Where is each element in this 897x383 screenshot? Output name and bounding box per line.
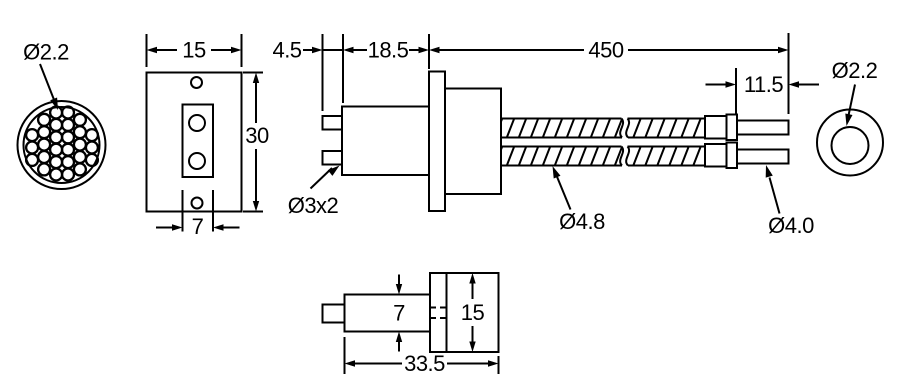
dimension 450 arrows and line [429,47,440,53]
leader arrow for O4.8 [557,176,571,210]
leader arrow for left O2.2 [40,64,55,101]
svg-text:30: 30 [245,123,269,148]
svg-text:Ø2.2: Ø2.2 [832,58,878,83]
extension line at wire end [788,33,790,114]
dimension 11.5 arrows [706,84,726,86]
svg-text:11.5: 11.5 [744,72,783,97]
terminal tab upper (side view) [323,116,343,130]
dimension 33.5 extension lines [344,337,346,374]
right view outer circle (wire insulation) [817,110,883,176]
dimension 15 arrows (rear housing height) [469,273,475,284]
svg-text:4.5: 4.5 [272,38,301,63]
upper cable ferrule [727,115,738,141]
plate center slot rectangle [183,105,214,178]
dimension 30 line and arrows [253,73,259,84]
dimension 7 arrows (bottom view body height) [398,275,400,286]
plate bottom screw hole [192,198,203,209]
svg-text:33.5: 33.5 [404,351,445,376]
connector body (bottom view) [345,295,431,332]
plate top screw hole [191,77,202,88]
left view inner circle (shield) [24,107,100,183]
svg-text:Ø4.8: Ø4.8 [559,209,605,234]
left view outer circle (cable jacket) [18,101,106,189]
lower bare lead wire [737,150,789,164]
rear housing (side view) [445,89,501,195]
terminal tab lower (side view) [323,151,343,165]
leader arrow for O3x2 [311,168,333,189]
terminal tab (bottom view) [323,305,345,323]
svg-text:7: 7 [393,301,405,326]
dimension 33.5 arrows and line [345,360,356,366]
dimension 15 line and arrows [147,47,158,53]
svg-text:15: 15 [461,300,485,325]
flange/rear divider line [446,273,448,352]
hidden slot line upper (dashed) [430,307,447,309]
leader arrow for right O2.2 [849,85,856,116]
svg-text:Ø3x2: Ø3x2 [288,193,339,218]
extension line at body left edge [342,34,344,103]
extension line at tab left edge [322,34,324,111]
slot hole upper [189,115,205,131]
leader arrow for O4.0 [770,178,780,214]
svg-text:15: 15 [182,38,206,63]
lower cable ferrule [727,143,738,169]
mounting flange (side view) [429,72,445,212]
upper bare lead wire [737,121,789,135]
front plate outline [147,73,242,212]
svg-text:18.5: 18.5 [368,38,409,63]
right view inner circle (conductor) [832,127,869,164]
svg-text:Ø4.0: Ø4.0 [768,213,814,238]
dimension 7 arrows (plate slot width) [156,227,172,229]
lower cable end sleeve [705,144,727,167]
wire strands (28 conductors) [26,107,98,181]
dimension 11.5 extension line [735,68,737,114]
dimension line between tab and body extension lines [323,49,344,51]
extension line at flange left edge [428,34,430,69]
svg-text:7: 7 [192,214,204,239]
dimension 18.5 arrows and line [343,47,354,53]
connector body (side view) [342,107,429,176]
dimension 7 extension lines (plate slot) [182,190,184,232]
dimension 15 extension lines [146,34,148,67]
hidden slot line lower (dashed) [430,317,447,319]
svg-text:450: 450 [588,38,623,63]
upper cable end sleeve [705,116,727,139]
slot hole lower [189,153,205,169]
flange and rear housing outline (bottom view) [430,273,499,352]
svg-text:Ø2.2: Ø2.2 [23,40,69,65]
dimension 30 extension ticks [243,72,263,74]
